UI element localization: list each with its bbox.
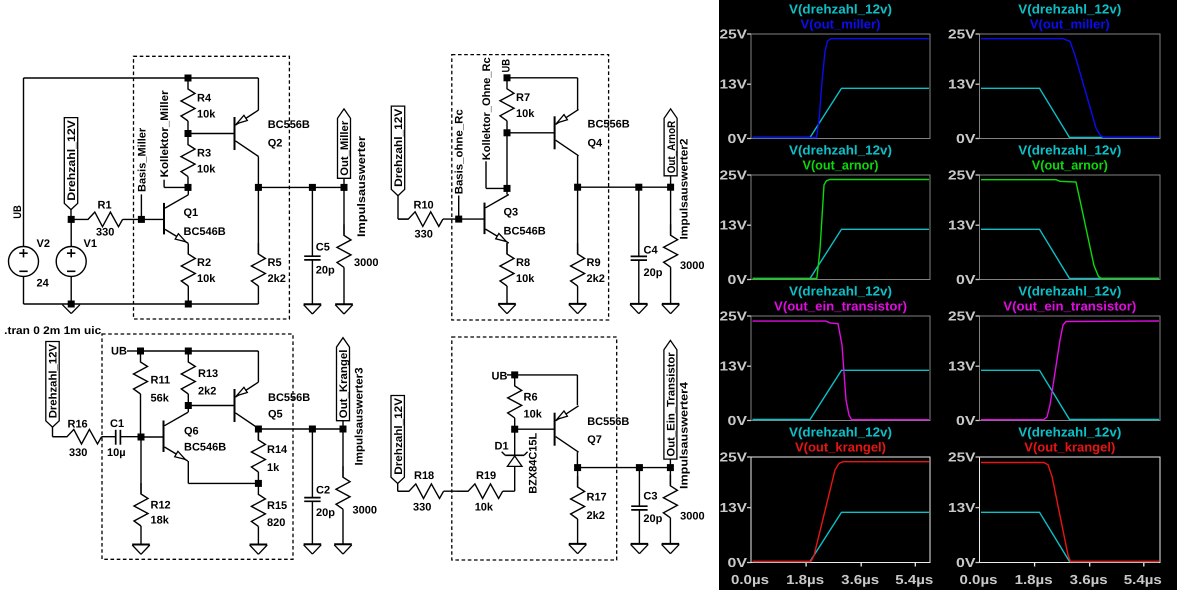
resistor R8	[500, 243, 514, 286]
ground under R17	[569, 543, 587, 545]
ground under C4	[630, 303, 648, 305]
svg-text:20p: 20p	[643, 513, 662, 525]
wire top rail block2	[507, 77, 578, 79]
flag Drehzahl_12V block1	[64, 118, 77, 210]
svg-text:V(drehzahl_12v): V(drehzahl_12v)	[1018, 143, 1121, 158]
svg-text:10k: 10k	[475, 502, 494, 514]
wire out row block2	[578, 186, 671, 188]
transistor Q5	[234, 389, 236, 422]
junction R7-Q4 base	[504, 129, 511, 136]
svg-text:V(drehzahl_12v): V(drehzahl_12v)	[1018, 2, 1121, 17]
schematic background	[0, 0, 719, 590]
svg-text:Impulsauswerter3: Impulsauswerter3	[353, 368, 365, 466]
svg-text:R10: R10	[414, 200, 434, 212]
svg-text:V2: V2	[37, 238, 50, 250]
wire Q2 emitter up	[257, 78, 259, 110]
svg-text:2k2: 2k2	[198, 386, 216, 398]
svg-text:V(out_miller): V(out_miller)	[1030, 17, 1110, 32]
traces row3 col2	[981, 370, 1159, 419]
svg-text:13V: 13V	[720, 77, 748, 92]
wire top rail block3	[141, 350, 259, 352]
junction R13 top	[185, 348, 192, 355]
svg-text:R5: R5	[268, 257, 282, 269]
junction C5 top	[309, 184, 316, 191]
svg-text:0V: 0V	[728, 272, 748, 287]
svg-text:Q1: Q1	[184, 207, 199, 219]
transistor Q3	[484, 203, 486, 235]
svg-text:C2: C2	[316, 485, 330, 497]
voltage source V1	[56, 247, 86, 277]
ground under R8	[498, 303, 516, 305]
resistor R3	[181, 134, 195, 177]
svg-text:Q2: Q2	[268, 138, 283, 150]
svg-text:BC556B: BC556B	[268, 392, 310, 404]
wire Q7 collector down	[576, 452, 578, 467]
svg-text:V(drehzahl_12v): V(drehzahl_12v)	[789, 284, 892, 299]
capacitor C1	[115, 430, 117, 445]
junction node Basis_Miller	[138, 216, 145, 223]
junction C2 top	[309, 426, 316, 433]
svg-text:R13: R13	[198, 368, 218, 380]
junction UB-R11 top	[137, 348, 144, 355]
waveform background	[719, 0, 1177, 590]
flag Drehzahl_12V block2	[391, 106, 404, 196]
svg-text:R1: R1	[98, 200, 112, 212]
plot pane row2 col1 box	[751, 175, 930, 280]
svg-text:3.6µs: 3.6µs	[1070, 572, 1108, 587]
svg-text:D1: D1	[495, 441, 509, 453]
svg-text:3000: 3000	[354, 257, 378, 269]
svg-text:18k: 18k	[151, 515, 170, 527]
svg-text:C4: C4	[644, 244, 659, 256]
wire V1 bottom	[70, 277, 72, 305]
capacitor C3	[638, 468, 640, 507]
wire Q4 collector down	[577, 156, 579, 187]
resistor R18	[398, 484, 444, 499]
junction Q3 collector	[504, 185, 511, 192]
svg-text:10k: 10k	[516, 108, 535, 120]
wire out row block4	[578, 467, 671, 469]
svg-text:UB: UB	[500, 59, 512, 73]
resistor R11	[134, 351, 148, 394]
resistor R5	[257, 187, 259, 254]
junction top rail R4	[185, 75, 192, 82]
svg-text:2k2: 2k2	[587, 510, 605, 522]
wire Q7 emitter up	[576, 375, 578, 405]
zener diode D1	[507, 456, 522, 466]
svg-text:10k: 10k	[516, 273, 535, 285]
resistor R9	[577, 187, 579, 254]
svg-text:Q3: Q3	[504, 207, 519, 219]
svg-text:13V: 13V	[720, 500, 748, 515]
junction Out_Krangel node	[340, 426, 347, 433]
transistor Q2	[234, 117, 236, 150]
svg-text:R16: R16	[68, 418, 88, 430]
svg-text:3000: 3000	[680, 260, 704, 272]
svg-text:10k: 10k	[197, 273, 216, 285]
svg-text:R4: R4	[197, 93, 212, 105]
ground under C2	[304, 543, 322, 545]
resistor R4	[181, 78, 195, 121]
junction C3 top	[636, 464, 643, 471]
dashed box block1	[134, 56, 290, 319]
svg-text:330: 330	[96, 227, 114, 239]
svg-text:1.8µs: 1.8µs	[786, 572, 824, 587]
svg-text:BC556B: BC556B	[268, 119, 310, 131]
svg-text:1k: 1k	[267, 462, 280, 474]
wire top rail block4	[515, 374, 578, 376]
junction Out_ArnoR node	[667, 184, 674, 191]
svg-text:0V: 0V	[728, 131, 748, 146]
net label Kollektor_Miller	[163, 180, 165, 188]
wire Q5 collector down	[257, 428, 259, 431]
resistor Impulsauswerter2 3000 block2	[670, 187, 672, 235]
flag Out_Krangel	[337, 338, 350, 421]
svg-text:Drehzahl_12V: Drehzahl_12V	[393, 397, 405, 474]
svg-text:BZX84C15L: BZX84C15L	[527, 433, 539, 494]
resistor R6	[508, 375, 522, 418]
traces row4 col1	[753, 512, 930, 561]
wire Q2 base	[188, 133, 235, 135]
svg-text:2k2: 2k2	[587, 273, 605, 285]
svg-text:0.0µs: 0.0µs	[731, 572, 769, 587]
plot pane row3 col1 box	[751, 316, 930, 421]
junction Q5 collector out	[255, 426, 262, 433]
ground under 3000 block2	[662, 303, 680, 305]
svg-text:.tran 0 2m 1m uic: .tran 0 2m 1m uic	[4, 325, 101, 337]
svg-text:C3: C3	[643, 491, 657, 503]
svg-text:330: 330	[413, 502, 431, 514]
svg-text:25V: 25V	[720, 168, 748, 183]
ground under 3000 block1	[335, 303, 353, 305]
svg-text:3000: 3000	[353, 505, 377, 517]
svg-text:13V: 13V	[948, 359, 976, 374]
svg-text:5.4µs: 5.4µs	[1124, 572, 1162, 587]
svg-text:0V: 0V	[956, 272, 976, 287]
wire Q6 emitter rail	[187, 461, 189, 483]
junction R6-D1-Q7 base	[511, 426, 518, 433]
svg-text:UB: UB	[492, 371, 508, 383]
svg-text:V(drehzahl_12v): V(drehzahl_12v)	[789, 2, 892, 17]
svg-text:0V: 0V	[956, 131, 976, 146]
flag Out_Ein_Transistor	[664, 340, 677, 459]
wire Q1 emitter to R2	[187, 244, 189, 255]
svg-text:25V: 25V	[720, 27, 748, 42]
resistor Impulsauswerter 3000 block1	[343, 187, 345, 235]
wire UB top rail block1	[24, 77, 259, 79]
svg-text:13V: 13V	[948, 218, 976, 233]
wire ground rail block1	[24, 303, 259, 305]
svg-text:V(out_ein_transistor): V(out_ein_transistor)	[1003, 299, 1136, 314]
svg-text:BC546B: BC546B	[184, 442, 226, 454]
wire Q4 emitter up	[577, 78, 579, 110]
svg-text:Q4: Q4	[588, 138, 604, 150]
svg-text:Kollektor_Ohne_Rc: Kollektor_Ohne_Rc	[481, 57, 493, 160]
svg-text:C1: C1	[110, 418, 124, 430]
svg-text:2k2: 2k2	[268, 273, 286, 285]
wire Q5 base	[188, 405, 234, 407]
net label Kollektor_Ohne_Rc	[485, 161, 487, 188]
resistor R14	[257, 429, 259, 440]
svg-text:V(drehzahl_12v): V(drehzahl_12v)	[789, 143, 892, 158]
svg-text:330: 330	[69, 447, 87, 459]
wire Q4 base	[507, 132, 555, 134]
junction R4-R3 Q2 base	[185, 130, 192, 137]
wire UB left rail	[23, 78, 25, 247]
junction Out_Miller node	[341, 184, 348, 191]
svg-text:R6: R6	[524, 392, 538, 404]
wire out row block3	[258, 428, 343, 430]
junction R3-Q1 collector	[185, 184, 192, 191]
svg-text:0V: 0V	[956, 555, 976, 570]
wire V1 top	[70, 219, 72, 246]
svg-text:UB: UB	[12, 205, 24, 219]
svg-text:R14: R14	[267, 444, 288, 456]
wire Q2 collector down	[257, 157, 259, 188]
dashed box block2	[452, 55, 609, 320]
svg-text:R9: R9	[587, 257, 601, 269]
transistor Q6	[163, 421, 165, 453]
wire V2 bottom	[23, 277, 25, 305]
svg-text:Q5: Q5	[268, 409, 283, 421]
svg-text:10µ: 10µ	[107, 447, 126, 459]
wire flag block3	[52, 427, 54, 437]
svg-text:V1: V1	[84, 238, 97, 250]
svg-text:V(drehzahl_12v): V(drehzahl_12v)	[1018, 284, 1121, 299]
traces row1 col1	[753, 88, 930, 137]
svg-text:Drehzahl_12V: Drehzahl_12V	[48, 343, 60, 418]
junction C1-R11-R12 node	[138, 434, 145, 441]
svg-text:V(out_miller): V(out_miller)	[801, 17, 881, 32]
svg-text:20p: 20p	[644, 267, 663, 279]
svg-text:10k: 10k	[524, 409, 543, 421]
svg-text:Basis_ohne_Rc: Basis_ohne_Rc	[454, 109, 466, 194]
wire Q5 emitter up	[257, 351, 259, 382]
wire R7 down to collector node	[506, 133, 508, 189]
svg-text:BC556B: BC556B	[588, 119, 630, 131]
junction R14-R15 emitter node	[255, 480, 262, 487]
wire R1 to Q1 base	[141, 218, 164, 220]
junction Q2 collector out	[255, 184, 262, 191]
svg-text:5.4µs: 5.4µs	[895, 572, 933, 587]
junction UB block2	[504, 74, 511, 81]
svg-text:25V: 25V	[720, 309, 748, 324]
svg-text:Q6: Q6	[184, 426, 199, 438]
svg-text:R12: R12	[151, 500, 171, 512]
svg-text:10k: 10k	[197, 109, 216, 121]
voltage source V2	[9, 247, 39, 277]
svg-text:C5: C5	[316, 242, 330, 254]
svg-text:25V: 25V	[720, 450, 748, 465]
ground under R12	[132, 544, 150, 546]
svg-text:Drehzahl_12V: Drehzahl_12V	[66, 119, 78, 200]
wire to Q3 base	[459, 218, 485, 220]
resistor R1	[71, 212, 122, 227]
resistor R13	[181, 351, 195, 394]
ground under C3	[631, 543, 649, 545]
svg-text:Impulsauswerter2: Impulsauswerter2	[679, 139, 691, 240]
resistor R10	[398, 212, 443, 227]
resistor R16	[53, 429, 102, 444]
resistor Impulsauswerter3 3000 block3	[342, 429, 344, 477]
capacitor C4	[638, 187, 640, 256]
svg-text:V(out_arnor): V(out_arnor)	[1032, 158, 1108, 173]
svg-text:20p: 20p	[316, 507, 335, 519]
svg-text:13V: 13V	[948, 500, 976, 515]
svg-text:25V: 25V	[948, 309, 976, 324]
wire Q7 base	[515, 428, 555, 430]
svg-text:UB: UB	[111, 346, 127, 358]
svg-text:R8: R8	[516, 257, 530, 269]
traces row3 col1	[753, 370, 930, 419]
svg-text:1.8µs: 1.8µs	[1015, 572, 1053, 587]
svg-text:Q7: Q7	[587, 434, 602, 446]
svg-text:BC556B: BC556B	[587, 416, 629, 428]
resistor R7	[500, 78, 514, 121]
svg-text:V(drehzahl_12v): V(drehzahl_12v)	[789, 425, 892, 440]
svg-text:24: 24	[37, 278, 50, 290]
svg-text:3000: 3000	[680, 511, 704, 523]
plot pane row2 col2 box	[980, 175, 1161, 280]
wire flag to node block1	[70, 210, 72, 220]
svg-text:R17: R17	[587, 492, 607, 504]
svg-text:330: 330	[415, 229, 433, 241]
flag Out_ArnoR	[664, 109, 677, 176]
ground under R15	[250, 544, 268, 546]
svg-text:Out_Miller: Out_Miller	[339, 120, 351, 176]
svg-text:V(out_arnor): V(out_arnor)	[803, 158, 879, 173]
plot pane row3 col2 box	[980, 316, 1161, 421]
wire flag block2	[397, 196, 399, 219]
resistor R17	[577, 468, 579, 487]
resistor Impulsauswerter4 3000 block4	[669, 468, 671, 486]
svg-text:Impulsauswerter4: Impulsauswerter4	[679, 381, 691, 489]
resistor R12	[140, 437, 142, 494]
flag Drehzahl_12V block4	[391, 396, 404, 484]
junction Q7 collector out	[574, 464, 581, 471]
transistor Q1	[163, 203, 165, 235]
svg-text:BC546B: BC546B	[504, 226, 546, 238]
junction V1 ground rail	[68, 301, 75, 308]
svg-text:R11: R11	[151, 375, 171, 387]
svg-text:R15: R15	[267, 500, 287, 512]
junction Out_Ein_Transistor node	[667, 464, 674, 471]
svg-text:25V: 25V	[948, 27, 976, 42]
traces row2 col2	[981, 229, 1159, 278]
svg-text:R7: R7	[516, 92, 530, 104]
wire flag block4	[397, 484, 399, 492]
svg-text:R19: R19	[476, 470, 496, 482]
dashed box block3	[102, 334, 293, 559]
traces row1 col2	[981, 88, 1159, 137]
svg-text:V(out_ein_transistor): V(out_ein_transistor)	[774, 299, 907, 314]
ground under 3000 block3	[334, 543, 352, 545]
svg-text:0V: 0V	[728, 555, 748, 570]
svg-text:R3: R3	[197, 148, 211, 160]
traces row2 col1	[753, 229, 930, 278]
svg-text:13V: 13V	[720, 359, 748, 374]
svg-text:Out_Krangel: Out_Krangel	[338, 350, 350, 419]
ground under V1	[62, 305, 71, 314]
svg-text:Drehzahl_12V: Drehzahl_12V	[393, 108, 405, 187]
junction R13-Q6 collector	[185, 402, 192, 409]
ground under 3000 block4	[662, 543, 680, 545]
junction Q4 collector out	[574, 184, 581, 191]
svg-text:Out_ArnoR: Out_ArnoR	[666, 121, 678, 174]
svg-text:56k: 56k	[151, 393, 170, 405]
svg-text:3.6µs: 3.6µs	[841, 572, 879, 587]
net label Basis_ohne_Rc	[458, 196, 460, 220]
junction UB block4	[511, 371, 518, 378]
svg-text:Impulsauswerter: Impulsauswerter	[356, 135, 368, 237]
plot pane row4 col1 box	[751, 457, 930, 563]
svg-text:820: 820	[267, 517, 285, 529]
junction node Basis_ohne_Rc	[455, 216, 462, 223]
svg-text:10k: 10k	[197, 164, 216, 176]
svg-text:13V: 13V	[720, 218, 748, 233]
svg-text:V(out_krangel): V(out_krangel)	[1024, 440, 1115, 455]
svg-text:25V: 25V	[948, 450, 976, 465]
dashed box block4	[452, 337, 617, 560]
svg-text:0V: 0V	[956, 413, 976, 428]
plot pane row1 col1 box	[751, 34, 930, 139]
wire Q3 emitter to R8	[506, 243, 508, 254]
svg-text:V(drehzahl_12v): V(drehzahl_12v)	[1018, 425, 1121, 440]
resistor R2	[181, 244, 195, 287]
svg-text:Basis_Miller: Basis_Miller	[136, 127, 148, 192]
svg-text:0V: 0V	[728, 413, 748, 428]
svg-text:R18: R18	[414, 470, 434, 482]
transistor Q4	[554, 116, 556, 149]
svg-text:R2: R2	[197, 257, 211, 269]
svg-text:20p: 20p	[316, 265, 335, 277]
capacitor C5	[311, 187, 313, 256]
wire R19 up to D1	[514, 466, 516, 491]
junction V1-R1	[68, 216, 75, 223]
plot pane row4 col2 box	[980, 457, 1161, 563]
svg-text:Kollektor_Miller: Kollektor_Miller	[159, 90, 171, 178]
plot pane row1 col2 box	[980, 34, 1161, 139]
svg-text:Out_Ein_Transistor: Out_Ein_Transistor	[666, 352, 678, 457]
net label Basis_Miller	[140, 194, 142, 219]
wire C1 to Q6 base	[141, 436, 164, 438]
flag Out_Miller	[338, 109, 351, 178]
svg-text:V(out_krangel): V(out_krangel)	[795, 440, 886, 455]
svg-text:25V: 25V	[948, 168, 976, 183]
svg-text:BC546B: BC546B	[184, 226, 226, 238]
ground under C5	[304, 303, 322, 305]
junction C4 top	[635, 184, 642, 191]
flag Drehzahl_12V block3	[46, 342, 59, 428]
svg-text:0.0µs: 0.0µs	[960, 572, 998, 587]
wire out row block1	[258, 186, 344, 188]
ground under R9	[569, 303, 587, 305]
capacitor C2	[311, 429, 313, 498]
junction R2 ground rail	[185, 301, 192, 308]
resistor R19	[457, 484, 503, 499]
svg-text:13V: 13V	[948, 77, 976, 92]
transistor Q7	[554, 413, 556, 446]
resistor R15	[251, 483, 265, 526]
traces row4 col2	[981, 512, 1159, 561]
